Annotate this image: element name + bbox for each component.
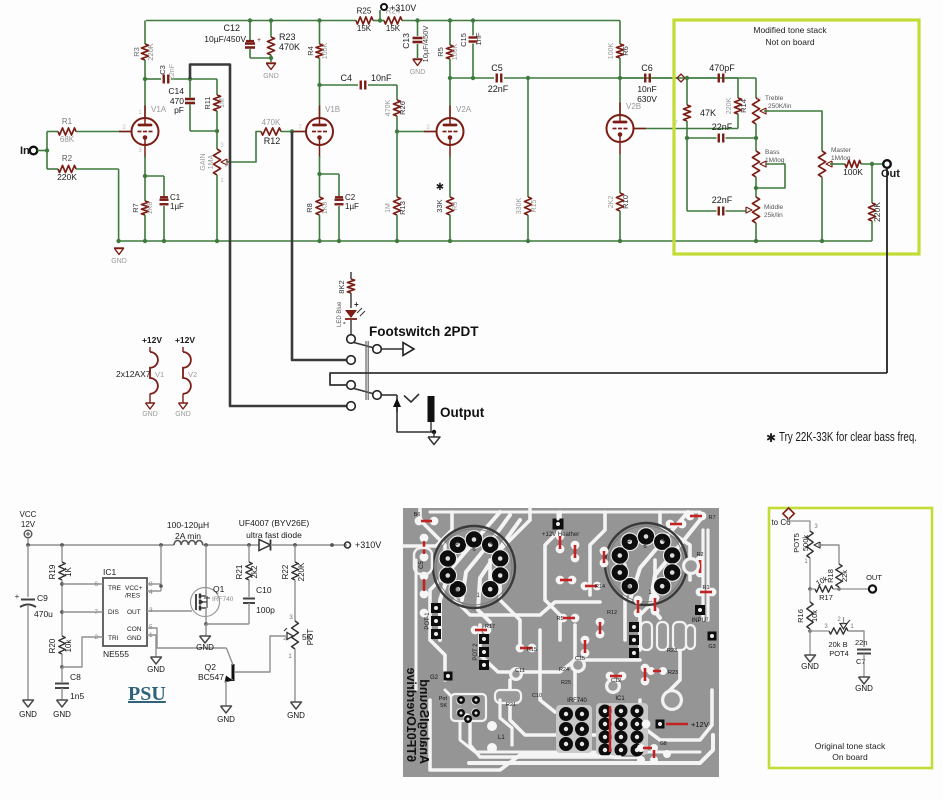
svg-text:R21: R21 — [506, 702, 516, 708]
svg-text:POT: POT — [306, 629, 315, 646]
svg-text:500k: 500k — [801, 535, 810, 552]
svg-text:Middle: Middle — [764, 204, 784, 211]
svg-text:3: 3 — [289, 614, 293, 621]
svg-text:100-120µH: 100-120µH — [167, 520, 209, 530]
svg-text:220K: 220K — [297, 562, 306, 581]
svg-text:1M/log: 1M/log — [765, 157, 785, 164]
svg-text:C12: C12 — [611, 678, 621, 684]
svg-text:22k: 22k — [840, 570, 849, 582]
svg-text:C6: C6 — [641, 63, 653, 73]
svg-text:R7: R7 — [131, 203, 140, 213]
svg-text:22n: 22n — [855, 638, 868, 647]
svg-text:GND: GND — [196, 643, 214, 652]
svg-text:+12V: +12V — [691, 720, 709, 729]
svg-text:+: + — [257, 37, 261, 44]
svg-text:220K: 220K — [872, 202, 882, 222]
svg-text:15K: 15K — [386, 24, 401, 33]
svg-text:Not on board: Not on board — [765, 37, 814, 47]
svg-text:IRF740: IRF740 — [567, 698, 587, 704]
svg-text:Pot: Pot — [439, 696, 448, 702]
svg-text:OUT: OUT — [866, 573, 882, 582]
svg-text:Q1: Q1 — [213, 584, 225, 594]
svg-text:10nF: 10nF — [637, 84, 656, 94]
svg-text:100K: 100K — [608, 43, 615, 60]
svg-text:GND: GND — [142, 411, 158, 418]
svg-text:Modified tone stack: Modified tone stack — [753, 25, 827, 35]
svg-text:On board: On board — [832, 752, 868, 762]
svg-text:2A min: 2A min — [175, 531, 201, 541]
svg-text:R25: R25 — [561, 680, 571, 686]
svg-text:100K: 100K — [843, 167, 863, 177]
svg-text:G3: G3 — [708, 644, 715, 650]
svg-text:PSU: PSU — [128, 683, 166, 705]
svg-text:1M: 1M — [385, 203, 392, 213]
svg-text:10k: 10k — [810, 610, 819, 622]
svg-text:GND: GND — [217, 715, 235, 724]
svg-text:R23: R23 — [667, 648, 677, 654]
svg-text:IC1: IC1 — [615, 696, 625, 702]
svg-text:C10: C10 — [256, 585, 272, 595]
svg-text:8K2: 8K2 — [337, 280, 346, 293]
svg-text:NE555: NE555 — [103, 649, 129, 659]
svg-text:✱: ✱ — [766, 431, 776, 445]
svg-text:C13: C13 — [401, 33, 411, 49]
svg-text:C9: C9 — [37, 593, 48, 603]
svg-text:220K: 220K — [726, 98, 733, 115]
svg-text:BC547: BC547 — [198, 672, 224, 682]
svg-text:+310V: +310V — [390, 3, 416, 13]
svg-text:C10: C10 — [532, 693, 542, 699]
svg-text:+12V Heather: +12V Heather — [542, 532, 579, 538]
svg-text:TRI: TRI — [108, 635, 119, 642]
svg-text:UF4007 (BYV26E): UF4007 (BYV26E) — [239, 518, 310, 528]
svg-text:R17: R17 — [485, 624, 495, 630]
svg-text:22nF: 22nF — [488, 84, 509, 94]
svg-text:R9: R9 — [452, 201, 459, 210]
svg-text:pF: pF — [174, 105, 184, 115]
svg-text:20k B: 20k B — [828, 640, 847, 649]
svg-text:100K: 100K — [452, 44, 459, 61]
svg-text:Master: Master — [831, 147, 852, 154]
svg-text:R15: R15 — [527, 647, 537, 653]
svg-text:+12V: +12V — [175, 335, 195, 345]
svg-text:+310V: +310V — [355, 540, 381, 550]
svg-text:Try 22K-33K for clear bass fre: Try 22K-33K for clear bass freq. — [779, 430, 917, 444]
svg-text:R15: R15 — [531, 199, 538, 212]
svg-text:GAIN: GAIN — [200, 153, 207, 170]
svg-text:+: + — [15, 592, 20, 601]
svg-text:C14: C14 — [168, 86, 184, 96]
svg-text:10k: 10k — [64, 639, 73, 653]
svg-text:R17: R17 — [819, 593, 833, 602]
svg-text:10µF/450V: 10µF/450V — [204, 34, 246, 44]
svg-text:ultra fast diode: ultra fast diode — [246, 530, 302, 540]
svg-text:R20: R20 — [48, 638, 57, 653]
svg-text:R23: R23 — [279, 32, 296, 42]
svg-text:GND: GND — [175, 411, 191, 418]
svg-text:10µF/450V: 10µF/450V — [421, 26, 430, 63]
svg-text:220K: 220K — [146, 43, 155, 61]
svg-text:R5: R5 — [436, 47, 445, 57]
svg-text:GND: GND — [147, 665, 165, 674]
svg-text:CON: CON — [127, 626, 142, 633]
svg-text:R24: R24 — [559, 667, 569, 673]
svg-text:V2A: V2A — [456, 105, 472, 114]
svg-text:G8: G8 — [660, 741, 667, 747]
svg-text:GND: GND — [410, 69, 426, 76]
svg-text:GND: GND — [287, 711, 305, 720]
svg-text:R12: R12 — [264, 136, 281, 146]
svg-text:1M: 1M — [219, 98, 226, 108]
svg-text:220K: 220K — [57, 172, 77, 182]
svg-text:✱: ✱ — [436, 182, 444, 193]
svg-text:C1: C1 — [170, 193, 181, 202]
svg-text:R12: R12 — [607, 610, 617, 616]
svg-text:AnalogISound: AnalogISound — [417, 679, 431, 764]
svg-text:GND: GND — [19, 710, 37, 719]
svg-text:Treble: Treble — [765, 95, 784, 102]
svg-text:V1A: V1A — [151, 105, 167, 114]
svg-text:POT4: POT4 — [829, 649, 849, 658]
svg-text:POT 1: POT 1 — [425, 612, 431, 630]
svg-text:DIS: DIS — [108, 609, 120, 616]
svg-text:R6: R6 — [621, 46, 630, 56]
svg-text:R2: R2 — [696, 552, 703, 558]
svg-text:R21: R21 — [235, 564, 244, 579]
svg-text:Bass: Bass — [765, 149, 780, 156]
svg-text:1MA: 1MA — [208, 154, 215, 169]
svg-text:GND: GND — [53, 710, 71, 719]
svg-text:22nF: 22nF — [712, 122, 733, 132]
svg-text:100p: 100p — [256, 605, 275, 615]
svg-text:R1: R1 — [62, 117, 73, 126]
svg-text:2x12AX7: 2x12AX7 — [116, 369, 151, 379]
svg-text:22nF: 22nF — [169, 64, 176, 80]
svg-text:Q2: Q2 — [205, 662, 217, 672]
svg-text:47K: 47K — [700, 108, 716, 118]
svg-text:1K: 1K — [64, 566, 73, 576]
svg-text:C12: C12 — [223, 23, 240, 33]
svg-text:Output: Output — [440, 405, 485, 420]
svg-text:VCC: VCC — [20, 510, 37, 519]
svg-text:V2: V2 — [188, 370, 197, 379]
svg-text:IRF740: IRF740 — [212, 596, 234, 603]
svg-text:POT5: POT5 — [792, 533, 801, 553]
svg-text:Footswitch 2PDT: Footswitch 2PDT — [369, 324, 479, 339]
svg-text:V1B: V1B — [325, 105, 340, 114]
svg-text:1K8: 1K8 — [322, 202, 329, 215]
svg-text:5K: 5K — [440, 703, 447, 709]
svg-text:33K: 33K — [435, 199, 444, 212]
svg-text:INPUᵀ: INPUᵀ — [692, 617, 709, 624]
svg-text:R11: R11 — [203, 96, 212, 109]
svg-text:R25: R25 — [357, 7, 372, 16]
svg-text:R3: R3 — [132, 47, 141, 57]
svg-text:330K: 330K — [516, 198, 523, 215]
svg-text:1: 1 — [288, 653, 292, 660]
svg-text:POT 2: POT 2 — [473, 643, 479, 661]
svg-text:1µF: 1µF — [170, 202, 184, 211]
svg-text:C3: C3 — [158, 65, 167, 75]
svg-text:470u: 470u — [34, 609, 53, 619]
svg-text:470K: 470K — [279, 42, 300, 52]
svg-text:R1: R1 — [702, 585, 709, 591]
svg-text:R14: R14 — [595, 584, 605, 590]
svg-text:R2: R2 — [62, 154, 73, 163]
svg-text:6TF01Overdrive: 6TF01Overdrive — [404, 667, 418, 762]
svg-text:R19: R19 — [48, 564, 57, 579]
svg-text:2K2: 2K2 — [608, 196, 615, 209]
svg-text:15K: 15K — [357, 24, 372, 33]
svg-text:C15: C15 — [575, 656, 585, 662]
svg-text:V1: V1 — [155, 370, 164, 379]
svg-text:1K8: 1K8 — [147, 202, 154, 215]
svg-text:10nF: 10nF — [371, 73, 392, 83]
svg-text:C15: C15 — [459, 33, 468, 47]
svg-text:Original tone stack: Original tone stack — [815, 741, 886, 751]
svg-text:L1: L1 — [498, 735, 505, 741]
svg-text:C2: C2 — [345, 193, 356, 202]
svg-text:2k2: 2k2 — [250, 565, 259, 578]
svg-text:22nF: 22nF — [712, 195, 733, 205]
svg-text:1nF: 1nF — [474, 32, 483, 45]
svg-text:630V: 630V — [637, 94, 657, 104]
svg-text:25k/lin: 25k/lin — [764, 212, 783, 219]
svg-text:GND: GND — [263, 73, 279, 80]
svg-text:C5: C5 — [491, 63, 503, 73]
svg-text:R26: R26 — [398, 101, 407, 115]
svg-text:R10: R10 — [621, 195, 630, 209]
svg-text:R8: R8 — [305, 203, 314, 213]
svg-text:470K: 470K — [262, 118, 281, 127]
svg-text:R13: R13 — [398, 201, 407, 215]
svg-text:R5: R5 — [556, 616, 563, 622]
svg-text:C8: C8 — [70, 672, 81, 682]
svg-text:C4: C4 — [340, 73, 352, 83]
svg-text:R7: R7 — [708, 515, 715, 521]
svg-text:GND: GND — [111, 258, 127, 265]
svg-text:IC1: IC1 — [103, 567, 117, 577]
svg-text:68K: 68K — [60, 135, 75, 144]
svg-text:B6: B6 — [414, 512, 421, 518]
svg-text:470K: 470K — [385, 100, 392, 117]
svg-text:R4: R4 — [306, 46, 315, 56]
svg-text:R22: R22 — [281, 564, 290, 579]
svg-text:R16: R16 — [796, 609, 805, 623]
svg-text:-: - — [343, 318, 346, 327]
svg-text:VCC+: VCC+ — [125, 585, 143, 592]
svg-text:C11: C11 — [515, 668, 525, 674]
svg-text:250K/lin: 250K/lin — [768, 103, 792, 110]
svg-text:470pF: 470pF — [709, 63, 735, 73]
svg-text:1µF: 1µF — [345, 202, 359, 211]
svg-text:GND: GND — [855, 684, 873, 693]
svg-text:GND: GND — [801, 662, 819, 671]
svg-text:/RES: /RES — [125, 593, 141, 600]
svg-text:12V: 12V — [21, 520, 36, 529]
svg-text:+: + — [354, 300, 359, 309]
svg-text:⊓: ⊓ — [757, 96, 761, 102]
svg-text:4: 4 — [149, 589, 153, 596]
svg-text:+12V: +12V — [142, 335, 162, 345]
svg-text:R23: R23 — [668, 670, 678, 676]
svg-text:C5: C5 — [419, 561, 425, 569]
svg-text:100K: 100K — [322, 43, 329, 60]
svg-text:R14: R14 — [739, 99, 748, 113]
svg-text:1n5: 1n5 — [70, 691, 84, 701]
svg-text:GND: GND — [127, 635, 142, 642]
svg-text:Out: Out — [881, 168, 900, 180]
svg-text:OUT: OUT — [127, 609, 141, 616]
svg-text:TRE: TRE — [108, 585, 122, 592]
